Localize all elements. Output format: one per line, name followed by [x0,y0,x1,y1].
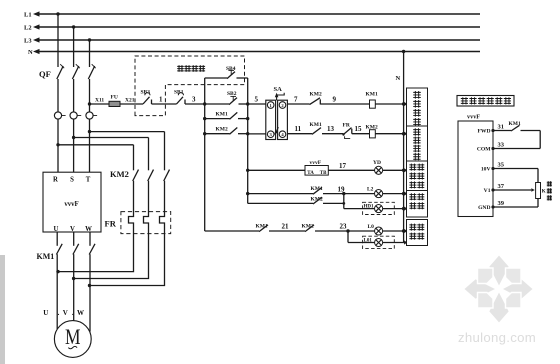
wire row3 left [248,169,305,171]
arrow row5 annotation [404,207,408,211]
terminal V1 [484,188,495,194]
svg-text:KM2: KM2 [310,92,322,98]
node row5-N [402,207,405,210]
thermal relay FR heater 2 [74,181,149,279]
svg-text:5: 5 [255,96,259,104]
wire row1 to N [375,103,403,105]
pushbutton SB2 (start, NO) [227,91,248,105]
svg-text:33: 33 [498,141,505,148]
thermal relay FR dashed box [105,212,171,234]
contact KM1 holding (NO) [205,112,248,120]
contact KM2 holding (NO) [205,127,248,135]
svg-text:TA: TA [307,171,314,176]
svg-text:TB: TB [320,171,327,176]
svg-text:X21: X21 [125,98,135,104]
svg-text:U: U [54,226,59,233]
svg-text:K: K [542,190,546,195]
wire node 39 [493,200,538,207]
annotation box VFD fault indicate [407,161,428,191]
wire to SA pin 3 [248,133,266,135]
wire row5 to lamp [344,208,375,210]
wire bypass R [58,144,134,146]
thermal relay FR contact (NC) [342,123,351,139]
node control tap on T [88,102,91,105]
wire right control bus [247,104,249,203]
contact KM2 pole 2 [148,138,154,182]
svg-text:M: M [65,324,81,349]
svg-text:37: 37 [498,183,505,190]
contact KM1 pole 1 [56,232,62,329]
wire SB4 branch left riser [204,78,206,104]
node row4 bus [246,192,249,195]
svg-text:V: V [70,226,75,233]
wire SA pin2 out / node 7 [287,96,309,105]
thermal relay FR heater 1 [58,181,134,272]
wire bypass T [90,131,165,133]
svg-text:vvvF: vvvF [310,160,322,166]
node row6 junction [346,229,349,232]
svg-text:zhulong.com: zhulong.com [458,330,536,345]
wire row6 to lamp [348,230,375,232]
wire node 33 [493,141,540,148]
wire SB4 branch right riser [247,78,249,104]
svg-text:13: 13 [327,125,335,133]
arrow row6 annotation [404,229,408,233]
node L3 tap [88,38,91,41]
node row3 bus [246,169,249,172]
svg-text:KM2: KM2 [216,127,228,133]
node row2-N [402,132,405,135]
selector switch SA [266,86,288,140]
svg-text:SA: SA [274,86,283,93]
pushbutton SB1 (stop, NC) [174,90,185,105]
current transformer TA3 [86,112,97,172]
node motor line join 1 [56,270,59,273]
node L2 tap [72,25,75,28]
arrow row1 annotation [404,102,408,106]
wire row3 to N [383,169,404,171]
svg-text:N: N [396,75,401,82]
svg-text:HD1: HD1 [364,204,375,209]
coil KM2 [366,124,378,138]
node motor line join 2 [72,277,75,280]
node bypass tap R [56,143,59,146]
svg-text:7: 7 [294,96,298,104]
wire row2 to N [375,133,403,135]
node junction B [246,102,249,105]
bus L1 [24,11,480,18]
svg-text:QF: QF [39,69,51,79]
svg-text:L0: L0 [368,224,375,230]
terminal 10V [481,167,495,173]
svg-text:31: 31 [498,123,505,130]
potentiometer label (Chinese) [547,181,552,186]
svg-text:X11: X11 [95,98,104,104]
arrow row2 annotation [404,132,408,136]
svg-text:KM1: KM1 [310,122,322,128]
svg-text:KM2: KM2 [110,169,129,179]
contact KM2 (NO) row5 [248,196,344,204]
bus L2 [24,24,480,31]
wire row5 riser [343,194,345,209]
wire SA pin4 out / node 11 [287,125,312,134]
svg-text:W: W [77,309,84,317]
wire node 9 [320,96,369,105]
pushbutton SB4 (remote start, NO) [205,66,248,79]
arrow row3 annotation [404,168,408,172]
contact KM1 pole 3 [89,232,95,332]
contact KM2 (NC) row6 [302,224,349,232]
contact KM2 interlock (NC) [310,92,322,105]
terminal COM [477,147,495,153]
svg-text:R: R [53,177,58,184]
coil KM1 [366,92,378,109]
wire row5 to N [383,208,404,210]
wire node 31 [493,123,511,130]
contact KM2 pole 1 [133,145,139,181]
wire row7 riser [347,231,349,243]
terminal GND [478,205,495,211]
lamp L0 (stop) [368,224,383,235]
node row-B right [246,132,249,135]
svg-text:11: 11 [295,125,302,133]
breaker QF pole 3 [88,40,95,112]
svg-text:17: 17 [339,162,347,170]
potentiometer K [536,183,546,199]
contact KM1 (NO) row2 [310,122,344,135]
svg-text:T: T [86,177,91,184]
motor M [54,321,91,358]
VFD terminal box [458,114,493,217]
motor terminal labels U V W [43,309,84,317]
lamp HD1 (remote run, dashed enclosure) [363,202,395,214]
svg-text:23: 23 [340,223,348,231]
wire node 35 [493,161,538,168]
terminal FWD [477,129,494,135]
svg-text:S: S [70,177,74,184]
svg-text:V: V [63,309,68,317]
wire node 17 [328,162,374,170]
svg-text:vvvF: vvvF [64,201,78,208]
svg-text:10V: 10V [481,167,491,173]
svg-text:3: 3 [192,96,196,104]
node row4-N [402,192,405,195]
remote control box label (Chinese) [177,65,184,72]
wire node 3 [185,96,229,105]
current transformer TA2 [70,112,81,172]
wire control feed [90,103,144,105]
svg-text:.: . [58,309,60,317]
arrow row7 annotation [404,240,408,244]
wire node 1 [152,96,177,105]
node row5 junction [342,202,345,205]
node L1 tap [56,12,59,15]
svg-text:.: . [72,309,74,317]
node row-A left [203,117,206,120]
svg-text:1: 1 [159,96,163,104]
svg-text:KM1: KM1 [37,252,55,261]
VFD U1 (inverter) [43,172,101,233]
svg-text:L2: L2 [367,187,374,193]
contact KM1 (NO) run command [509,121,541,131]
bus N [28,49,480,56]
contact KM1 pole 2 [73,232,79,326]
wire row7 to N [383,242,404,244]
VFD fault relay contact TA-TB [305,160,328,176]
annotation box line-freq control [407,126,428,161]
svg-text:35: 35 [498,161,505,168]
lamp L2 (run) [367,187,383,198]
svg-text:39: 39 [498,200,505,207]
lamp L01 (remote stop, dashed enclosure) [363,236,395,248]
wire row4 to lamp [344,193,375,195]
bus L3 [24,37,480,44]
svg-text:V1: V1 [484,188,491,194]
wire row6 to N [383,230,404,232]
annotation box VFD control [407,88,428,126]
svg-text:YD: YD [373,160,381,166]
svg-text:KM1: KM1 [216,112,228,118]
wire node 5 [248,96,266,105]
svg-text:GND: GND [478,205,490,211]
contact KM2 pole 3 [164,132,170,181]
svg-text:L3: L3 [24,38,32,45]
contact KM1 (NC) row6 [205,224,305,232]
wire node 15 [352,125,370,134]
node row1-N [402,102,405,105]
svg-text:COM: COM [477,147,491,153]
svg-text:L01: L01 [364,238,373,243]
title box VFD control terminals (Chinese) [457,96,514,107]
svg-text:FR: FR [105,219,117,229]
node row6-N [402,229,405,232]
annotation box stop indicate [407,220,428,246]
svg-text:W: W [85,226,92,233]
svg-text:FU: FU [111,95,118,101]
pushbutton SB3 (stop, NC) [141,90,152,105]
svg-text:U: U [43,309,48,317]
svg-text:15: 15 [355,125,363,133]
remote control station dashed box [135,56,245,116]
node row-A right [246,117,249,120]
node N tap [402,50,405,53]
wire node 37 wiper [493,183,535,192]
svg-text:N: N [28,49,33,56]
wire left control bus [204,104,206,231]
svg-text:KM1: KM1 [366,92,378,98]
wire FWD-COM riser [539,131,541,149]
annotation box run indicate [407,191,428,218]
wire bypass S [74,137,149,139]
svg-text:L2: L2 [24,25,32,32]
node row3-N [402,169,405,172]
svg-text:vvvF: vvvF [467,114,480,121]
node row-B left [203,132,206,135]
wire N riser [396,52,404,243]
breaker QF pole 2 [72,27,79,112]
node junction A [203,102,206,105]
current transformer TA1 [54,112,65,172]
svg-text:FWD: FWD [477,129,490,135]
svg-text:FR: FR [343,123,351,129]
wire GND riser [537,199,539,208]
node bypass tap S [72,136,75,139]
contact KM1 (NO) row4 [248,186,344,194]
wire row7 to lamp [348,242,375,244]
svg-text:21: 21 [282,223,290,231]
thermal relay FR heater 3 [90,181,165,286]
svg-text:L1: L1 [24,12,32,19]
wire row4 to N [383,193,404,195]
svg-text:9: 9 [333,96,337,104]
wire 10V riser [537,169,539,183]
node row4 junction [342,192,345,195]
lamp YD (fault) [373,160,383,174]
node motor line join 3 [88,284,91,287]
fuse FU [109,95,120,107]
breaker QF pole 1 [57,14,64,112]
arrow row4 annotation [404,192,408,196]
node bypass tap T [88,130,91,133]
